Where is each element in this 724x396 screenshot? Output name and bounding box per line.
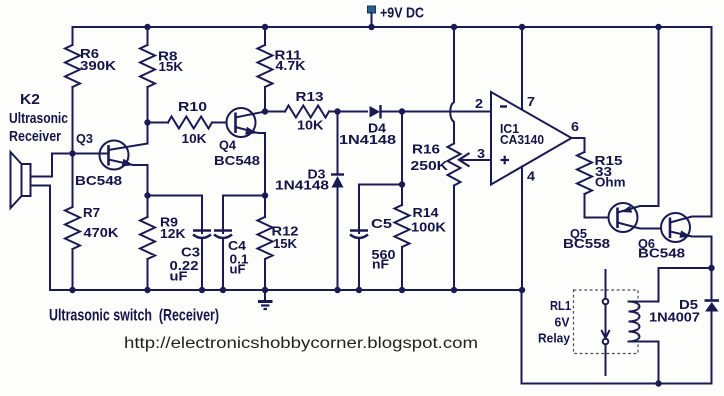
wire Q5 emitter (PNP, arrow into bar) <box>618 27 659 213</box>
svg-text:BC548: BC548 <box>638 246 685 261</box>
wire op-amp output to R15 <box>572 138 585 152</box>
wire C3 top <box>148 196 203 234</box>
svg-text:10K: 10K <box>297 118 324 133</box>
svg-text:uF: uF <box>230 262 246 277</box>
svg-text:Relay: Relay <box>538 331 571 346</box>
diode D4 <box>338 111 368 113</box>
svg-text:6V: 6V <box>555 315 570 330</box>
wire Q4 emitter <box>236 127 266 196</box>
svg-text:390K: 390K <box>80 58 117 73</box>
svg-text:250K: 250K <box>411 158 449 173</box>
wire R8 bottom to Q3 collector <box>147 87 149 144</box>
resistor R13 <box>265 111 285 113</box>
wire R16 wiper to pin3 <box>460 159 491 161</box>
svg-text:Ohm: Ohm <box>595 175 626 190</box>
wire Q3 collector diagonal <box>109 144 148 151</box>
relay RL1 coil <box>629 302 640 342</box>
wire bottom right return <box>522 290 712 384</box>
svg-text:R13: R13 <box>296 89 324 104</box>
svg-text:3: 3 <box>477 146 485 161</box>
diode D5 <box>711 268 713 300</box>
svg-text:12K: 12K <box>160 226 186 241</box>
svg-text:1N4148: 1N4148 <box>339 132 396 147</box>
svg-text:K2: K2 <box>20 91 40 108</box>
svg-text:7: 7 <box>527 94 535 109</box>
wire Q6 emitter <box>670 232 712 269</box>
capacitor C5 <box>359 185 402 234</box>
wire R6 bottom to base node <box>72 87 74 154</box>
pin 2 minus sign <box>500 105 507 107</box>
speaker K2 <box>22 164 31 196</box>
svg-text:470K: 470K <box>84 225 120 240</box>
svg-text:4.7K: 4.7K <box>276 58 307 73</box>
svg-text:uF: uF <box>170 269 188 284</box>
capacitor C4 <box>222 196 224 234</box>
wire coil bottom to ground wire <box>629 342 659 384</box>
svg-text:10K: 10K <box>182 131 208 146</box>
node base junction <box>69 150 75 156</box>
relay switch contacts <box>605 270 607 299</box>
svg-text:15K: 15K <box>159 59 184 74</box>
resistor R7 <box>72 154 74 208</box>
resistor R14 <box>395 205 410 247</box>
transistor Q5 <box>609 203 638 232</box>
svg-text:R10: R10 <box>178 99 207 114</box>
wire left column top (rail to R6) <box>72 27 74 45</box>
wire R8 column top <box>147 27 149 45</box>
capacitor C3 <box>193 229 211 232</box>
transistor Q4 <box>227 108 256 137</box>
svg-text:R7: R7 <box>83 205 100 220</box>
op-amp IC1 <box>491 92 572 185</box>
svg-text:R14: R14 <box>413 205 440 220</box>
wire D4 node to op-amp pin2 <box>402 111 491 113</box>
wire R11 column <box>264 27 266 45</box>
svg-text:6: 6 <box>571 119 579 134</box>
resistor R10 <box>148 122 169 124</box>
svg-text:BC548: BC548 <box>214 153 260 168</box>
wire Q6 collector to rail corner <box>670 27 712 223</box>
svg-text:R16: R16 <box>412 142 440 157</box>
svg-text:CA3140: CA3140 <box>500 132 544 147</box>
resistor R15 <box>577 152 592 194</box>
transistor Q6 <box>661 213 690 242</box>
svg-text:1N4148: 1N4148 <box>275 178 329 193</box>
node +9V terminal <box>368 6 376 13</box>
wire speaker top terminal <box>31 154 100 177</box>
svg-text:2: 2 <box>475 96 483 111</box>
resistor R9 <box>147 196 149 218</box>
svg-text:100K: 100K <box>411 220 447 235</box>
resistor R12 <box>264 196 266 218</box>
wire emitter node to relay coil <box>629 268 712 302</box>
wire speaker bottom terminal <box>31 186 51 291</box>
wire top supply rail <box>73 26 712 28</box>
wire Q4 collector diagonal <box>236 112 266 118</box>
svg-text:RL1: RL1 <box>550 298 571 313</box>
svg-text:C5: C5 <box>371 216 392 231</box>
relay dashed box <box>574 290 639 354</box>
svg-text:+9V DC: +9V DC <box>380 5 424 22</box>
wire Q5 collector to Q6 base <box>618 223 662 229</box>
pin 4 <box>521 167 523 291</box>
potentiometer R16 <box>450 27 454 144</box>
resistor R11 <box>258 45 273 87</box>
ground <box>264 290 266 301</box>
svg-text:nF: nF <box>372 257 389 272</box>
wire Q3 emitter <box>109 160 148 196</box>
pin 3 plus sign <box>501 159 510 161</box>
svg-text:Ultrasonic switch (Receiver): Ultrasonic switch (Receiver) <box>49 307 219 325</box>
svg-text:http://electronicshobbycorner.: http://electronicshobbycorner.blogspot.c… <box>124 335 478 352</box>
svg-text:4: 4 <box>527 169 536 184</box>
svg-text:BC558: BC558 <box>563 236 610 251</box>
diode D3 <box>337 112 339 175</box>
svg-text:15K: 15K <box>273 236 298 251</box>
wire C4 to R12 node <box>223 195 265 197</box>
wire +9V stub <box>371 13 373 27</box>
wire bottom ground rail <box>50 289 522 291</box>
wire R14 column with C5 node <box>401 112 403 206</box>
svg-text:BC548: BC548 <box>75 173 122 188</box>
transistor Q3 <box>100 141 129 170</box>
svg-text:Q4: Q4 <box>219 138 237 153</box>
pin 7 <box>521 27 523 110</box>
svg-text:1N4007: 1N4007 <box>649 310 700 325</box>
svg-text:Receiver: Receiver <box>9 128 61 145</box>
svg-text:Ultrasonic: Ultrasonic <box>9 110 68 127</box>
resistor R6 <box>65 45 80 87</box>
resistor R8 <box>140 45 155 87</box>
svg-text:Q3: Q3 <box>76 131 93 146</box>
